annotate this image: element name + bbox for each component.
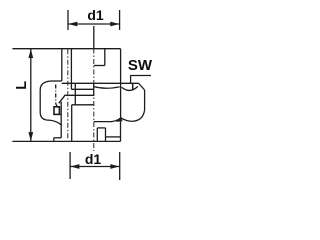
svg-text:d1: d1 bbox=[87, 7, 104, 23]
svg-text:L: L bbox=[14, 81, 30, 90]
svg-text:SW: SW bbox=[128, 57, 153, 74]
svg-text:d1: d1 bbox=[85, 151, 102, 167]
